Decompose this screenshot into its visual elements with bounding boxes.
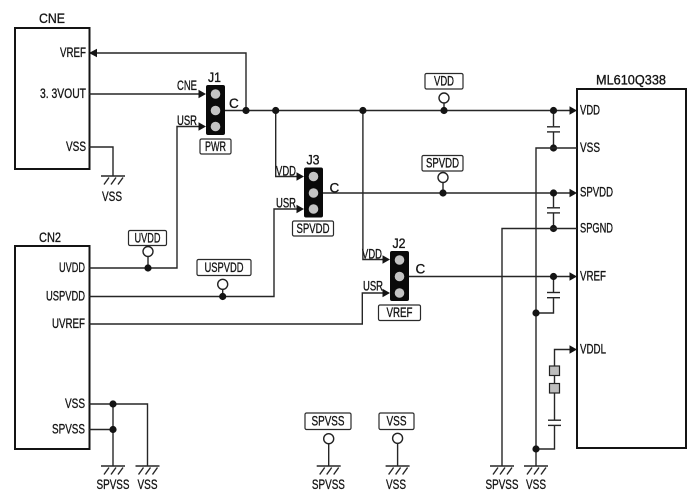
svg-text:J2: J2 — [393, 236, 406, 251]
wire VSS pin to ground rail — [536, 148, 577, 466]
label SPVDD net flag — [422, 156, 463, 190]
svg-text:3. 3VOUT: 3. 3VOUT — [40, 86, 86, 101]
svg-text:USPVDD: USPVDD — [46, 289, 85, 304]
svg-text:USR: USR — [363, 279, 383, 294]
svg-text:VSS: VSS — [66, 139, 86, 154]
capacitor C1 (VDD-VSS) — [547, 111, 560, 149]
wire CN2 VSS to grounds — [89, 404, 148, 466]
svg-text:PWR: PWR — [205, 139, 226, 154]
wire C of J1 to VDD pin (main VDD rail) — [225, 96, 577, 115]
node junction SPVDD flag — [439, 189, 446, 196]
svg-text:VDD: VDD — [276, 164, 296, 179]
jumper J3 body — [304, 153, 323, 218]
label VREF of J2 — [379, 305, 421, 321]
wire C of J3 to SPVDD pin — [323, 181, 577, 198]
node junction VDDL return on VSS rail — [532, 445, 539, 452]
wire J2 VDD branch — [362, 111, 390, 264]
node junction UVDD flag — [144, 264, 151, 271]
wire VREF return (C of J1 to CNE VREF) — [89, 49, 246, 111]
svg-text:CNE: CNE — [177, 78, 197, 93]
svg-text:SPVSS: SPVSS — [312, 477, 345, 492]
wire CN2 SPVSS link — [89, 429, 113, 431]
svg-text:USR: USR — [276, 196, 296, 211]
wire C of J2 to VREF pin — [409, 262, 577, 281]
label VSS net flag — [379, 413, 414, 466]
svg-text:VSS: VSS — [65, 396, 85, 411]
ground (CN2 VSS) — [136, 466, 160, 475]
wire VSS/SPVSS down — [112, 404, 114, 466]
svg-text:UVDD: UVDD — [135, 231, 161, 246]
svg-text:UVDD: UVDD — [59, 260, 85, 275]
connector CNE box — [15, 11, 90, 169]
svg-text:CNE: CNE — [39, 11, 65, 26]
svg-text:CN2: CN2 — [39, 230, 61, 245]
node junction C2 top — [550, 189, 557, 196]
svg-text:C: C — [416, 262, 426, 277]
ground (VSS rail right) — [524, 466, 548, 475]
wire CNE VSS to ground — [89, 147, 113, 176]
node junction C3 top — [550, 273, 557, 280]
wire UVREF to J2 USR pin — [89, 279, 390, 325]
ground (SPGND / SPVSS right) — [490, 466, 514, 475]
capacitor C2 (SPVDD-SPGND) — [547, 193, 560, 229]
label SPVDD of J3 — [293, 221, 334, 236]
wire J3 VDD branch — [276, 111, 304, 181]
svg-text:SPVSS: SPVSS — [312, 414, 345, 429]
svg-text:SPVSS: SPVSS — [486, 477, 519, 492]
svg-text:ML610Q338: ML610Q338 — [596, 73, 666, 88]
svg-text:VREF: VREF — [60, 45, 86, 60]
ferrite bead FB1 — [550, 366, 560, 376]
ground (VSS flag) — [386, 466, 410, 475]
node junction USPVDD flag — [219, 293, 226, 300]
svg-text:VSS: VSS — [580, 140, 600, 155]
node junction J3 branch on VDD rail — [272, 107, 279, 114]
svg-text:VSS: VSS — [526, 477, 546, 492]
svg-text:USPVDD: USPVDD — [205, 260, 244, 275]
svg-text:J1: J1 — [208, 70, 221, 85]
node junction C1 bottom — [550, 144, 557, 151]
svg-text:VREF: VREF — [580, 269, 606, 284]
wire FB1-FB2 link — [554, 376, 556, 384]
svg-text:VREF: VREF — [387, 305, 413, 320]
svg-text:VSS: VSS — [387, 414, 407, 429]
jumper J2 body — [390, 236, 409, 301]
node junction VDD flag on VDD rail — [440, 107, 447, 114]
node junction C1 top — [550, 107, 557, 114]
node junction VREF-return on VDD rail — [242, 107, 249, 114]
label PWR of J1 — [200, 139, 231, 154]
svg-text:UVREF: UVREF — [52, 316, 85, 331]
svg-text:VDDL: VDDL — [580, 342, 606, 357]
capacitor C4 (VDDL) — [536, 393, 561, 449]
wire VDDL branch — [555, 345, 578, 366]
node junction C2 bottom — [550, 225, 557, 232]
node junction CN2 SPVSS — [109, 426, 116, 433]
wire USPVDD to J3 USR pin — [89, 196, 304, 297]
svg-text:SPVDD: SPVDD — [580, 185, 613, 200]
svg-text:J3: J3 — [307, 153, 320, 168]
node junction C3 return on VSS rail — [532, 309, 539, 316]
jumper J1 body — [206, 70, 225, 135]
svg-text:USR: USR — [177, 113, 197, 128]
wire SPGND pin to SPVSS ground — [502, 229, 577, 467]
svg-text:C: C — [229, 96, 239, 111]
svg-text:VDD: VDD — [362, 247, 382, 262]
svg-text:VSS: VSS — [138, 477, 158, 492]
label USPVDD net flag — [197, 260, 251, 294]
label SPVSS net flag — [305, 413, 351, 466]
svg-text:VSS: VSS — [386, 477, 406, 492]
ground (SPVSS flag) — [317, 466, 341, 475]
ground (CN2 SPVSS) — [101, 466, 125, 475]
label VDD net flag — [425, 74, 463, 108]
capacitor C3 (VREF) — [536, 277, 560, 314]
wire 3.3VOUT to J1 CNE pin — [89, 78, 206, 98]
svg-text:VSS: VSS — [102, 189, 122, 204]
wire UVDD to J1 USR pin — [89, 113, 206, 268]
svg-text:SPGND: SPGND — [580, 221, 613, 236]
label UVDD net flag — [129, 231, 167, 266]
svg-text:VDD: VDD — [580, 103, 600, 118]
IC ML610Q338 box — [577, 73, 686, 449]
svg-text:VDD: VDD — [434, 74, 454, 89]
svg-text:SPVSS: SPVSS — [97, 477, 130, 492]
svg-text:SPVDD: SPVDD — [297, 221, 330, 236]
svg-text:SPVSS: SPVSS — [52, 422, 85, 437]
svg-text:C: C — [330, 181, 340, 196]
svg-text:SPVDD: SPVDD — [426, 156, 459, 171]
node junction J2 branch on VDD rail — [359, 107, 366, 114]
node junction CN2 VSS — [109, 400, 116, 407]
connector CN2 box — [15, 230, 90, 449]
ferrite bead FB2 — [550, 384, 560, 394]
ground (CNE VSS) — [101, 176, 125, 185]
